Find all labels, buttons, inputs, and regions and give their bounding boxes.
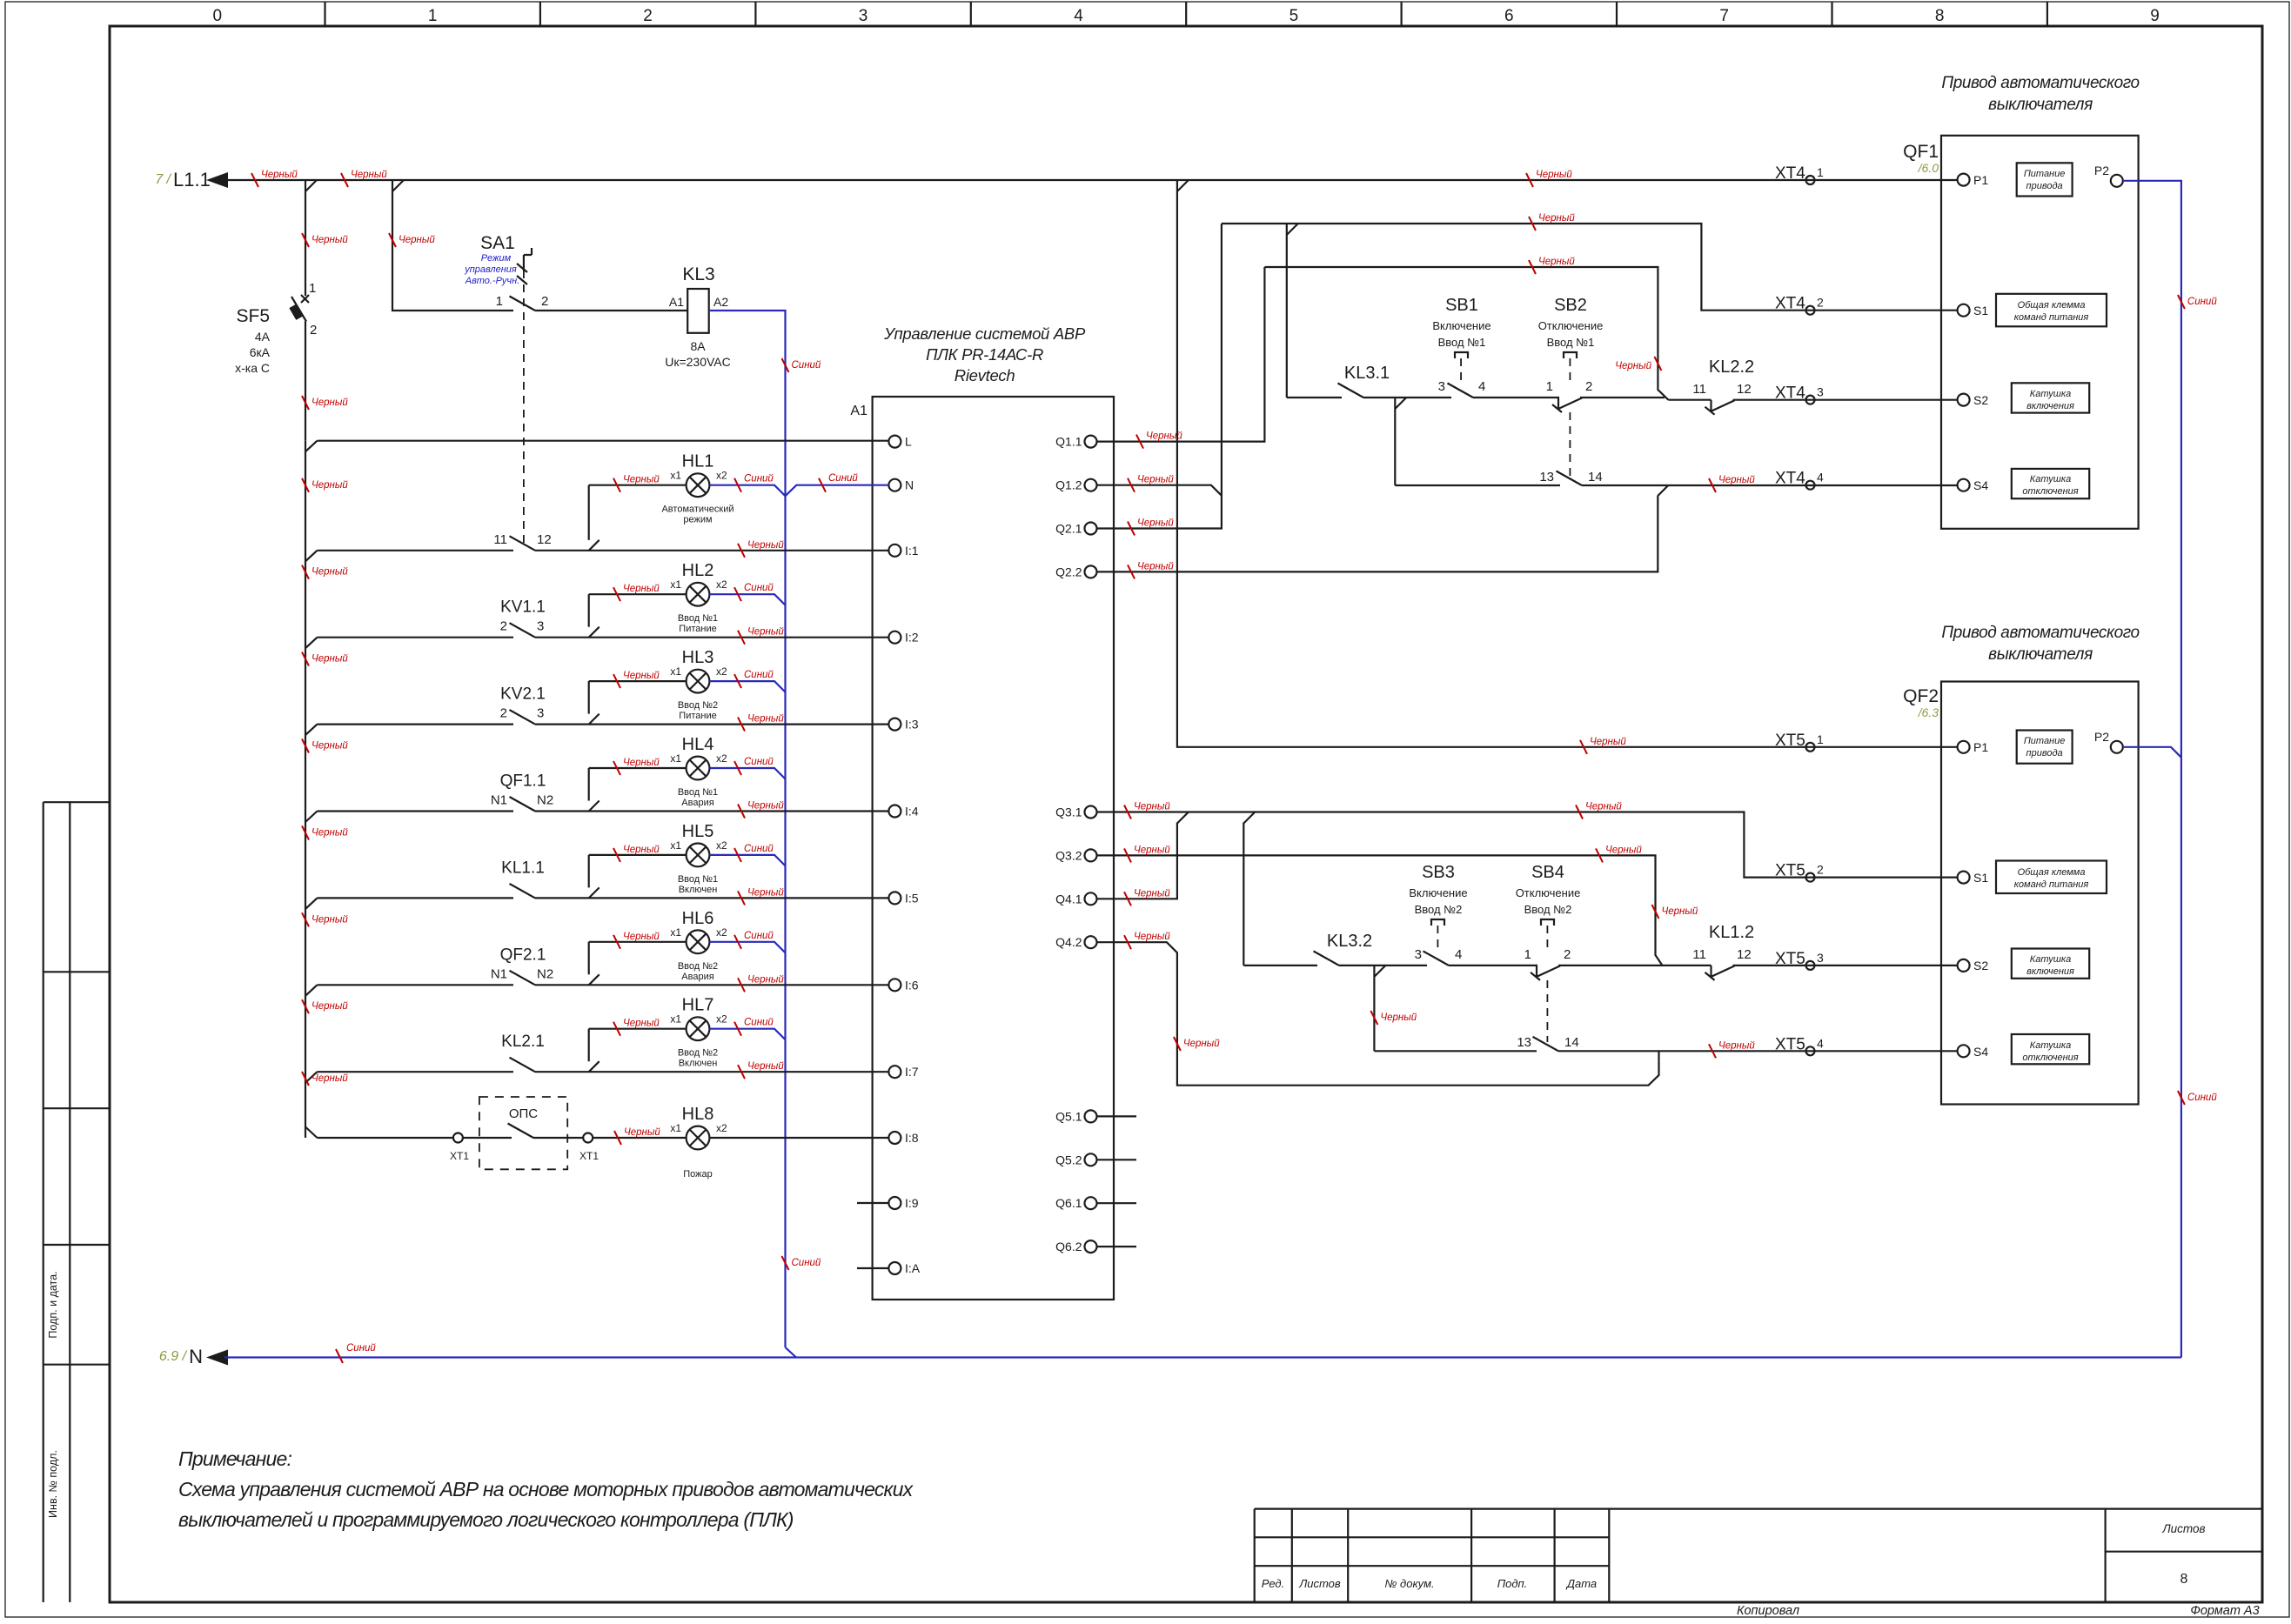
- svg-text:x2: x2: [716, 1122, 727, 1134]
- svg-text:Черный: Черный: [623, 584, 660, 594]
- svg-text:KL3.1: KL3.1: [1344, 364, 1390, 383]
- svg-text:Черный: Черный: [1718, 1040, 1755, 1051]
- svg-text:KL2.1: KL2.1: [501, 1033, 545, 1051]
- wire line257 to XT4-2: [1222, 224, 1958, 311]
- svg-text:Режим: Режим: [481, 253, 512, 264]
- svg-text:12: 12: [537, 532, 552, 547]
- QF2 pin S1: [1958, 872, 1970, 884]
- svg-text:Управление системой АВР: Управление системой АВР: [883, 324, 1086, 343]
- svg-text:режим: режим: [683, 515, 712, 525]
- svg-text:14: 14: [1564, 1035, 1579, 1050]
- PLC pin Q5.2: [1085, 1153, 1097, 1166]
- svg-text:x2: x2: [716, 926, 727, 939]
- wire Q3.2 row: [1097, 855, 1663, 966]
- PLC pin Q1.2: [1085, 479, 1097, 491]
- svg-text:7: 7: [1719, 7, 1729, 25]
- svg-text:Катушка: Катушка: [2030, 389, 2071, 399]
- svg-text:XT4: XT4: [1775, 164, 1805, 183]
- PLC pin Q4.1: [1085, 892, 1097, 905]
- svg-text:Листов: Листов: [1298, 1577, 1341, 1590]
- svg-text:Черный: Черный: [1718, 475, 1755, 485]
- svg-text:1: 1: [1817, 732, 1824, 746]
- svg-text:2: 2: [1564, 947, 1571, 962]
- wire 13-14 row QF2: [1374, 1050, 1957, 1052]
- svg-text:XT5: XT5: [1775, 1035, 1805, 1053]
- svg-text:Ввод №1: Ввод №1: [1547, 336, 1595, 349]
- svg-text:Черный: Черный: [1585, 802, 1622, 812]
- svg-text:XT5: XT5: [1775, 732, 1805, 750]
- wire lamp branch HL1: [588, 485, 590, 540]
- svg-text:HL5: HL5: [682, 822, 714, 841]
- svg-text:13: 13: [1517, 1035, 1531, 1050]
- svg-text:Синий: Синий: [792, 360, 821, 371]
- svg-text:2: 2: [310, 323, 317, 337]
- ruler ticks: [325, 2, 2047, 26]
- svg-text:х-ка С: х-ка С: [235, 361, 270, 375]
- svg-text:x1: x1: [670, 1013, 681, 1026]
- svg-text:Ввод №2: Ввод №2: [678, 961, 718, 972]
- QF1 pin P2: [2111, 175, 2123, 187]
- contact SB2 13-14: [1560, 483, 1582, 488]
- svg-text:8A: 8A: [690, 339, 706, 353]
- svg-text:2: 2: [1817, 296, 1824, 310]
- svg-text:Ввод №2: Ввод №2: [1415, 903, 1463, 916]
- svg-text:Черный: Черный: [623, 932, 660, 942]
- svg-text:I:9: I:9: [905, 1196, 919, 1210]
- PLC pin I:8: [888, 1132, 901, 1144]
- svg-text:Черный: Черный: [311, 914, 348, 925]
- wire Q1.1 riser: [1097, 267, 1265, 442]
- PLC pin I:5: [888, 892, 901, 904]
- wire KL3 A2 blue: [709, 311, 786, 1347]
- PLC stub I:9: [857, 1202, 888, 1204]
- PLC stub I:A: [857, 1267, 888, 1269]
- svg-text:Листов: Листов: [2161, 1522, 2205, 1535]
- wire row I:4: [318, 810, 889, 812]
- svg-text:HL4: HL4: [682, 735, 714, 754]
- dashed link SA1: [523, 271, 525, 545]
- svg-text:0: 0: [213, 7, 223, 25]
- wire bus L1.1: [224, 179, 1958, 181]
- svg-text:P2: P2: [2094, 730, 2109, 744]
- svg-text:x1: x1: [670, 665, 681, 678]
- svg-text:x1: x1: [670, 752, 681, 765]
- svg-text:Rievtech: Rievtech: [955, 366, 1015, 384]
- svg-text:KL3.2: KL3.2: [1327, 932, 1372, 951]
- QF1 pin P1: [1958, 174, 1970, 186]
- svg-text:Черный: Черный: [623, 475, 660, 485]
- svg-text:2: 2: [643, 7, 653, 25]
- svg-text:Черный: Черный: [311, 654, 348, 665]
- svg-text:QF1.1: QF1.1: [500, 772, 546, 791]
- wire row L: [318, 440, 889, 442]
- wire L drop to QF2 P1: [1177, 180, 1958, 747]
- wire lamp HL4 to N: [709, 768, 785, 779]
- QF1 box Катушка включения: [2012, 383, 2089, 412]
- svg-text:Черный: Черный: [747, 1061, 784, 1072]
- svg-text:Авария: Авария: [681, 798, 713, 808]
- QF1 box: [1941, 136, 2139, 529]
- svg-text:/6.0: /6.0: [1918, 161, 1939, 175]
- PLC stub Q5.1: [1097, 1115, 1137, 1117]
- svg-text:Авария: Авария: [681, 972, 713, 982]
- svg-text:Черный: Черный: [747, 974, 784, 985]
- wire lamp HL1 to N: [709, 485, 785, 497]
- svg-text:№ докум.: № докум.: [1384, 1577, 1434, 1590]
- svg-text:S2: S2: [1973, 959, 1988, 972]
- svg-text:P1: P1: [1973, 740, 1988, 754]
- svg-text:ПЛК PR-14АС-R: ПЛК PR-14АС-R: [926, 345, 1043, 364]
- bus L1.1 arrow: [206, 172, 228, 188]
- svg-text:Черный: Черный: [399, 235, 435, 245]
- PLC pin Q3.2: [1085, 849, 1097, 861]
- svg-text:XT1: XT1: [450, 1150, 469, 1162]
- svg-text:3: 3: [537, 706, 544, 721]
- QF2 box: [1941, 682, 2139, 1105]
- svg-text:8: 8: [1935, 7, 1945, 25]
- svg-text:XT5: XT5: [1775, 950, 1805, 968]
- svg-text:включения: включения: [2026, 966, 2074, 977]
- svg-text:A2: A2: [713, 295, 728, 309]
- wire KL2.2 to S2: [1733, 399, 1958, 401]
- svg-text:1: 1: [1546, 379, 1553, 394]
- svg-text:Черный: Черный: [623, 1019, 660, 1029]
- svg-text:5: 5: [1290, 7, 1299, 25]
- wire S1 common drop to SB row: [1286, 224, 1288, 398]
- svg-text:Формат А3: Формат А3: [2190, 1604, 2259, 1618]
- svg-text:N1: N1: [491, 793, 507, 808]
- svg-text:Черный: Черный: [311, 398, 348, 408]
- wire SB row: [1287, 397, 1665, 398]
- svg-text:HL6: HL6: [682, 909, 714, 928]
- svg-text:Инв. № подл.: Инв. № подл.: [47, 1450, 59, 1518]
- svg-text:Черный: Черный: [1137, 475, 1174, 485]
- svg-text:Синий: Синий: [744, 757, 774, 767]
- wire SA1 to KL3: [535, 310, 687, 311]
- svg-text:Включение: Включение: [1409, 886, 1467, 899]
- svg-text:1: 1: [496, 294, 503, 309]
- svg-text:управления: управления: [464, 264, 517, 275]
- svg-text:QF2: QF2: [1903, 686, 1939, 706]
- junction to 13-14 row QF2: [1373, 966, 1375, 1051]
- left column boxes: [44, 802, 110, 1602]
- svg-text:P1: P1: [1973, 173, 1988, 187]
- PLC pin I:4: [888, 805, 901, 818]
- QF1 pin S2: [1958, 394, 1970, 406]
- svg-text:команд питания: команд питания: [2014, 879, 2089, 890]
- PLC pin I:9: [888, 1197, 901, 1209]
- opc dashed box: [479, 1097, 567, 1169]
- PLC pin Q2.2: [1085, 565, 1097, 578]
- svg-text:2: 2: [500, 706, 507, 721]
- svg-text:Q2.1: Q2.1: [1055, 522, 1082, 536]
- terminal XT4 3: [1806, 396, 1815, 404]
- svg-text:N: N: [189, 1346, 203, 1367]
- breaker SF5: [305, 180, 306, 296]
- svg-text:S1: S1: [1973, 304, 1988, 317]
- svg-text:SB3: SB3: [1422, 863, 1455, 882]
- terminal XT4 4: [1806, 481, 1815, 490]
- wire lamp branch HL7: [588, 1029, 590, 1062]
- svg-text:14: 14: [1588, 470, 1603, 485]
- svg-text:x2: x2: [716, 470, 727, 482]
- wire lamp HL6 to N: [709, 942, 785, 953]
- PLC stub Q6.2: [1097, 1246, 1137, 1247]
- svg-text:HL7: HL7: [682, 996, 714, 1015]
- svg-text:12: 12: [1737, 947, 1752, 962]
- svg-text:Черный: Черный: [311, 741, 348, 752]
- svg-text:отключения: отключения: [2022, 486, 2078, 497]
- svg-text:I:5: I:5: [905, 891, 919, 905]
- svg-text:3: 3: [859, 7, 868, 25]
- PLC pin Q1.1: [1085, 436, 1097, 448]
- wire lamp branch HL3: [588, 681, 590, 714]
- svg-text:I:A: I:A: [905, 1261, 921, 1275]
- terminal XT1 left: [453, 1133, 463, 1143]
- junction SB row to 13-14 row: [1394, 398, 1396, 485]
- svg-text:Черный: Черный: [1134, 802, 1170, 812]
- svg-text:I:6: I:6: [905, 978, 919, 992]
- wire lamp branch HL6: [588, 942, 590, 975]
- svg-text:Черный: Черный: [623, 845, 660, 855]
- svg-text:ОПС: ОПС: [509, 1106, 538, 1121]
- svg-text:Подп. и дата.: Подп. и дата.: [47, 1271, 59, 1338]
- wire Q4.2 bottom route: [1097, 942, 1659, 1086]
- svg-text:Питание: Питание: [679, 711, 716, 721]
- PLC pin L: [888, 436, 901, 448]
- wire row I:8: [318, 1137, 454, 1139]
- svg-text:Синий: Синий: [792, 1258, 821, 1268]
- svg-text:x2: x2: [716, 578, 727, 591]
- junction chamfer bus-QF2drop: [1177, 180, 1189, 191]
- svg-text:Черный: Черный: [311, 235, 348, 245]
- terminal XT4 2: [1806, 306, 1815, 315]
- svg-text:Q1.2: Q1.2: [1055, 478, 1082, 492]
- svg-text:KL1.1: KL1.1: [501, 859, 545, 877]
- junction chamfer bus-SA1: [392, 180, 404, 191]
- svg-text:Привод автоматического: Привод автоматического: [1941, 74, 2139, 92]
- left rail wire: [305, 441, 306, 1138]
- svg-text:XT1: XT1: [579, 1150, 599, 1162]
- wire XT1 to HL8: [593, 1137, 686, 1139]
- svg-text:3: 3: [1415, 947, 1422, 962]
- svg-text:x1: x1: [670, 470, 681, 482]
- svg-text:Черный: Черный: [747, 540, 784, 551]
- svg-text:Отключение: Отключение: [1538, 319, 1604, 332]
- svg-text:A1: A1: [850, 404, 867, 418]
- wire row I:3: [318, 723, 889, 725]
- svg-text:Черный: Черный: [311, 827, 348, 838]
- svg-text:отключения: отключения: [2022, 1053, 2078, 1063]
- svg-text:Привод автоматического: Привод автоматического: [1941, 624, 2139, 642]
- switch SA1 branch wire: [392, 180, 513, 311]
- svg-text:Uк=230VAC: Uк=230VAC: [665, 355, 731, 369]
- wire Q2.1 riser: [1097, 224, 1222, 529]
- svg-text:HL8: HL8: [682, 1105, 714, 1124]
- svg-text:Черный: Черный: [1134, 888, 1170, 899]
- svg-text:x2: x2: [716, 839, 727, 852]
- svg-text:Синий: Синий: [744, 1018, 774, 1028]
- svg-text:L: L: [905, 435, 912, 449]
- svg-text:Черный: Черный: [311, 567, 348, 578]
- svg-text:выключателя: выключателя: [1988, 645, 2093, 664]
- svg-text:привода: привода: [2026, 181, 2063, 191]
- svg-text:Черный: Черный: [1134, 932, 1170, 942]
- svg-text:6.9 /: 6.9 /: [159, 1349, 188, 1364]
- svg-text:Автоматический: Автоматический: [661, 505, 734, 515]
- PLC stub Q5.2: [1097, 1159, 1137, 1160]
- wire Q2.2 riser: [1097, 496, 1658, 572]
- PLC pin Q6.1: [1085, 1197, 1097, 1209]
- svg-text:2: 2: [541, 294, 548, 309]
- PLC pin I:6: [888, 979, 901, 991]
- svg-text:Авто.-Ручн.: Авто.-Ручн.: [465, 276, 519, 286]
- QF2 pin S4: [1958, 1045, 1970, 1057]
- svg-text:I:8: I:8: [905, 1131, 919, 1145]
- QF2 pin S2: [1958, 959, 1970, 972]
- svg-text:I:2: I:2: [905, 631, 919, 645]
- svg-text:XT4: XT4: [1775, 384, 1805, 403]
- contact SB4 13-14: [1537, 1048, 1558, 1053]
- contact SA1 11-12: [513, 548, 535, 553]
- svg-text:Ввод №1: Ввод №1: [678, 874, 718, 885]
- svg-text:Ввод №1: Ввод №1: [1438, 336, 1486, 349]
- svg-text:SB2: SB2: [1554, 296, 1587, 315]
- svg-text:Q3.2: Q3.2: [1055, 848, 1082, 862]
- svg-text:Черный: Черный: [1380, 1012, 1417, 1023]
- svg-text:KL3: KL3: [682, 264, 714, 284]
- svg-text:Q1.1: Q1.1: [1055, 435, 1082, 449]
- svg-text:Q5.1: Q5.1: [1055, 1109, 1082, 1123]
- PLC pin I:3: [888, 718, 901, 731]
- svg-text:11: 11: [493, 532, 507, 547]
- svg-text:Синий: Синий: [2187, 1093, 2217, 1103]
- svg-text:Ред.: Ред.: [1262, 1577, 1284, 1590]
- svg-text:S1: S1: [1973, 871, 1988, 885]
- QF1 box Питание привода: [2017, 163, 2073, 196]
- svg-text:Синий: Синий: [744, 474, 774, 485]
- svg-text:Черный: Черный: [1134, 845, 1170, 855]
- svg-text:Пожар: Пожар: [683, 1169, 713, 1180]
- svg-text:HL3: HL3: [682, 648, 714, 667]
- wire row I:1: [318, 550, 889, 551]
- wire row I:6: [318, 984, 889, 986]
- QF2 pin P2: [2111, 741, 2123, 753]
- title block: [1255, 1509, 2263, 1602]
- wire Q4.1 riser: [1097, 823, 1177, 899]
- terminal XT4 1: [1806, 176, 1815, 184]
- svg-text:Черный: Черный: [1137, 561, 1174, 571]
- wire QF2 P2 blue: [2123, 747, 2181, 758]
- svg-text:L1.1: L1.1: [173, 169, 211, 190]
- svg-text:Черный: Черный: [1662, 906, 1698, 917]
- svg-text:1: 1: [428, 7, 438, 25]
- svg-text:/6.3: /6.3: [1918, 705, 1939, 719]
- svg-text:выключателей и программируемог: выключателей и программируемого логическ…: [178, 1508, 794, 1531]
- svg-text:Черный: Черный: [1183, 1039, 1220, 1049]
- QF2 box Общая клемма: [1996, 861, 2107, 894]
- svg-text:Синий: Синий: [744, 583, 774, 593]
- svg-text:KL2.2: KL2.2: [1709, 358, 1754, 377]
- svg-text:x2: x2: [716, 1013, 727, 1026]
- wire KL1.2 to S2: [1733, 965, 1958, 966]
- svg-text:Катушка: Катушка: [2030, 474, 2071, 485]
- svg-text:Включен: Включен: [679, 1059, 718, 1069]
- svg-text:Питание: Питание: [2024, 169, 2066, 179]
- svg-text:Черный: Черный: [1137, 518, 1174, 529]
- svg-text:6кА: 6кА: [250, 345, 271, 359]
- wire lamp branch HL2: [588, 594, 590, 627]
- svg-text:P2: P2: [2094, 164, 2109, 177]
- QF1 pin S4: [1958, 479, 1970, 491]
- svg-text:Катушка: Катушка: [2030, 954, 2071, 965]
- svg-text:Питание: Питание: [2024, 736, 2066, 746]
- svg-text:Черный: Черный: [623, 758, 660, 768]
- wire Q1.2 dogleg: [1097, 485, 1222, 496]
- svg-text:3: 3: [1438, 379, 1445, 394]
- svg-text:Ввод №2: Ввод №2: [678, 700, 718, 711]
- svg-text:Q4.1: Q4.1: [1055, 892, 1082, 906]
- svg-text:Q2.2: Q2.2: [1055, 565, 1082, 578]
- svg-text:Общая клемма: Общая клемма: [2018, 300, 2086, 311]
- svg-text:QF2.1: QF2.1: [500, 946, 546, 964]
- PLC pin Q3.1: [1085, 806, 1097, 819]
- svg-text:I:4: I:4: [905, 805, 919, 819]
- svg-text:8: 8: [2180, 1572, 2188, 1587]
- terminal XT1 right: [583, 1133, 593, 1143]
- svg-text:SB4: SB4: [1531, 863, 1564, 882]
- wire line306 to KL2.2 node: [1264, 267, 1668, 400]
- svg-text:1: 1: [1817, 165, 1824, 179]
- svg-text:4: 4: [1817, 1036, 1824, 1050]
- svg-text:HL2: HL2: [682, 561, 714, 580]
- PLC pin N: [888, 479, 901, 491]
- svg-text:N2: N2: [537, 966, 553, 981]
- svg-text:Ввод №1: Ввод №1: [678, 613, 718, 624]
- svg-text:Подп.: Подп.: [1497, 1577, 1528, 1590]
- svg-text:Черный: Черный: [747, 801, 784, 812]
- wire Q3.1 row: [1097, 812, 1958, 878]
- svg-text:3: 3: [537, 619, 544, 634]
- svg-text:Черный: Черный: [311, 1073, 348, 1084]
- wire QF1 P2 blue: [2123, 181, 2181, 1358]
- svg-text:Включение: Включение: [1432, 319, 1490, 332]
- svg-text:SF5: SF5: [236, 306, 270, 326]
- svg-text:N: N: [905, 478, 914, 492]
- svg-text:Синий: Синий: [744, 931, 774, 941]
- svg-text:I:1: I:1: [905, 544, 919, 558]
- QF2 box Катушка включения: [2012, 949, 2089, 979]
- PLC pin I:1: [888, 545, 901, 557]
- wire lamp HL7 to N: [709, 1029, 785, 1040]
- wire lamp branch HL5: [588, 855, 590, 888]
- wire SB row drop: [1243, 823, 1244, 966]
- svg-text:XT4: XT4: [1775, 295, 1805, 313]
- wire row I:2: [318, 637, 889, 638]
- wire HL8 to PLC I:8: [709, 1137, 888, 1139]
- svg-text:x2: x2: [716, 665, 727, 678]
- svg-text:S4: S4: [1973, 1045, 1988, 1059]
- svg-text:3: 3: [1817, 951, 1824, 965]
- svg-text:S2: S2: [1973, 393, 1988, 407]
- svg-text:1: 1: [1524, 947, 1531, 962]
- svg-text:Ввод №2: Ввод №2: [678, 1048, 718, 1059]
- svg-text:Отключение: Отключение: [1516, 886, 1581, 899]
- svg-text:2: 2: [1817, 863, 1824, 877]
- terminal XT5 3: [1806, 961, 1815, 970]
- svg-text:4: 4: [1455, 947, 1462, 962]
- QF1 box Общая клемма: [1996, 294, 2107, 327]
